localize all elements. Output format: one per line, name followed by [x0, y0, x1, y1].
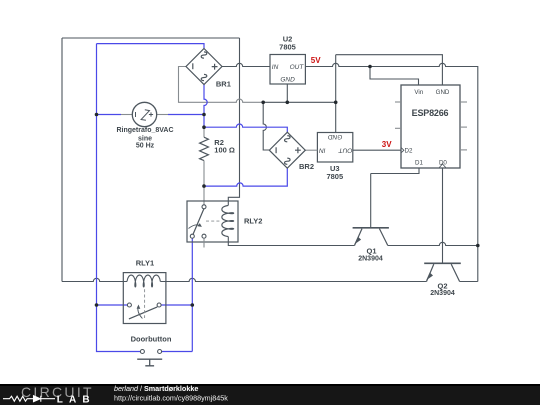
svg-text:sine: sine — [138, 136, 152, 143]
bridge rectifier BR1 — [186, 49, 222, 85]
switch Doorbutton circles — [140, 350, 144, 354]
svg-text:http://circuitlab.com/cy8988ym: http://circuitlab.com/cy8988ymj845k — [114, 394, 228, 403]
svg-text:Vin: Vin — [414, 89, 423, 96]
svg-text:GND: GND — [436, 89, 450, 96]
resistor R2 zigzag — [200, 137, 209, 160]
wire blue mid rail to doorbutton right — [162, 351, 193, 353]
svg-text:Q1: Q1 — [366, 247, 376, 256]
svg-text:IN: IN — [319, 146, 326, 153]
wire Q2 collector to rail — [460, 281, 478, 283]
wire 5V to ESP Vin jog — [370, 67, 419, 86]
svg-text:ESP8266: ESP8266 — [412, 108, 449, 118]
voltage source Ringetrafo — [132, 102, 156, 126]
svg-text:Doorbutton: Doorbutton — [131, 335, 172, 344]
pin stub ESP left y=128.3 — [395, 127, 401, 129]
svg-text:2N3904: 2N3904 — [430, 290, 455, 297]
bridge rectifier BR2 — [269, 132, 305, 168]
relay RLY2 actuate arrow — [189, 225, 201, 229]
relay RLY1 switch arm — [129, 307, 157, 319]
wire blue RLY2 NO contact down the mid rail — [191, 238, 193, 351]
pin stub ESP right y=102 — [460, 101, 467, 103]
wire GND bus right part — [263, 101, 336, 103]
lead source left (light) — [121, 114, 132, 116]
pin stub ESP right y=149.9 — [460, 149, 467, 151]
wire outer loop top (62,38)-(239.5,38) — [62, 37, 240, 39]
lead source right (light) — [157, 114, 168, 116]
wire U2 GND down to bus — [286, 84, 288, 102]
logo squiggle resistor diode — [3, 396, 55, 402]
pin stub ESP left y=102 — [395, 101, 401, 103]
wire blue left rail — [97, 44, 141, 352]
relay RLY2 pivot contact circle — [202, 205, 206, 209]
IC ESP8266 box — [401, 85, 460, 168]
svg-text:OUT: OUT — [290, 64, 305, 71]
regulator U3 box (rotated 180) — [317, 133, 352, 163]
relay RLY1 actuate arrow — [138, 306, 143, 318]
svg-text:IN: IN — [272, 64, 279, 71]
relay RLY2 NC contact circle — [202, 234, 206, 238]
wire blue RLY1 right contact to mid rail — [161, 304, 192, 306]
svg-text:7805: 7805 — [279, 43, 296, 52]
relay RLY1 box — [123, 273, 166, 324]
svg-text:50 Hz: 50 Hz — [136, 143, 155, 150]
relay RLY2 coil — [222, 205, 234, 236]
svg-text:7805: 7805 — [326, 172, 343, 181]
wire blue left rail to RLY1 left contact — [97, 304, 128, 306]
transistor Q1 — [353, 174, 389, 246]
svg-text:LAB: LAB — [57, 394, 96, 405]
relay RLY2 switch arm — [193, 209, 204, 235]
relay RLY1 coil — [127, 275, 160, 287]
wire D1 to Q1 base — [371, 168, 419, 174]
regulator U2 box — [270, 55, 305, 85]
switch Doorbutton actuator bar — [137, 359, 162, 366]
wire U3 OUT to ESP D2 — [353, 149, 401, 151]
pin stub ESP right y=127.1 — [460, 126, 467, 128]
pin arrow D0 — [439, 164, 445, 168]
svg-text:GND: GND — [280, 77, 295, 84]
relay RLY1 left contact circle — [127, 303, 131, 307]
svg-text:3V: 3V — [382, 140, 392, 149]
svg-text:RLY1: RLY1 — [136, 259, 154, 268]
wire blue to BR2 ~ top, hop over x=239.5 — [204, 124, 287, 132]
transistor Q2 — [424, 168, 461, 282]
wire blue to BR2 ~ bottom, hop over x=239.5 — [204, 168, 287, 186]
svg-text:5V: 5V — [311, 56, 321, 65]
wire blue BR1 bottom down with hop over GND bus — [204, 85, 207, 128]
wire blue source left stub — [97, 114, 122, 116]
svg-text:D0: D0 — [439, 160, 447, 167]
wire U2 OUT 5V rail, hops at x=335.7 and x=442.4, down right side — [305, 63, 477, 281]
wire GND vertical x=335.7 down to U3 GND — [335, 55, 337, 133]
svg-text:GND: GND — [328, 133, 343, 140]
wire BR1 + to U2 IN, hop over x=239.5 — [222, 63, 270, 66]
wire outer loop bottom to RLY1 coil left, hop over blue rail at x=96.5 — [62, 278, 127, 281]
wire vertical x=239.5 from top loop to RLY2 coil — [228, 38, 239, 205]
svg-text:2N3904: 2N3904 — [358, 256, 383, 263]
svg-text:100 Ω: 100 Ω — [214, 146, 235, 155]
footer bar — [0, 384, 540, 405]
wire BR1 - lead down and GND bus left part (light) — [179, 67, 264, 103]
wire outer loop left (62,38)-(62,281.5) — [61, 38, 63, 282]
svg-text:OUT: OUT — [338, 146, 353, 153]
pin arrow D2 — [401, 148, 404, 153]
lead RLY2 NC stub — [203, 238, 205, 247]
wire RLY1 coil right to Q2 emitter, hop over blue rail at x=192.3 — [160, 278, 426, 281]
svg-text:BR1: BR1 — [216, 80, 231, 89]
wire RLY2 coil bottom to Q1 emitter — [228, 237, 354, 246]
lead R2 bottom to RLY2 pivot (light) — [203, 161, 205, 205]
svg-text:Ringetrafo_8VAC: Ringetrafo_8VAC — [116, 127, 173, 134]
wire BR2 + to U3 — [305, 149, 317, 151]
wire blue top loop to BR1 ~ — [97, 44, 205, 49]
svg-text:D2: D2 — [405, 148, 413, 155]
relay RLY2 dashed link — [206, 220, 221, 222]
svg-text:RLY2: RLY2 — [244, 216, 262, 225]
wire GND top from x=335.7 to ESP GND — [336, 55, 443, 85]
relay RLY1 dashed link — [144, 289, 146, 318]
wire blue source right to BR1 bottom node — [168, 114, 204, 116]
relay RLY2 NO contact circle — [190, 234, 194, 238]
relay RLY2 box — [187, 201, 238, 242]
wire Q1 collector to 5V rail, hop over D0 line — [388, 242, 478, 245]
svg-text:berland / Smartdørklokke: berland / Smartdørklokke — [114, 384, 198, 393]
svg-text:BR2: BR2 — [299, 162, 314, 171]
lead R2 top from node (light) — [203, 127, 205, 137]
wire GND bus to BR2 - with hop over blue at y=127.2 — [263, 102, 269, 150]
relay RLY1 right contact circle — [157, 303, 161, 307]
svg-text:D1: D1 — [415, 160, 423, 167]
